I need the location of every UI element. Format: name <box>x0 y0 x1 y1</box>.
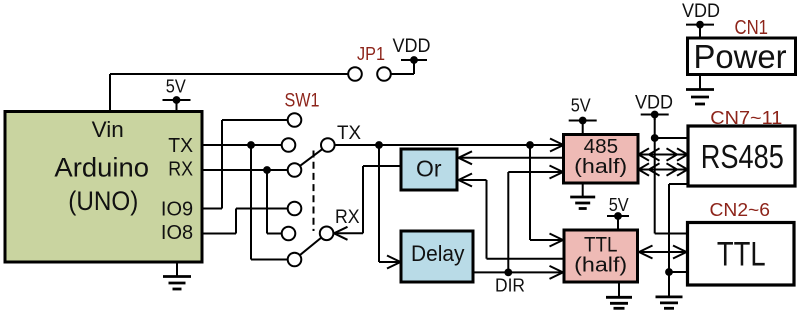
svg-text:Delay: Delay <box>411 241 464 266</box>
svg-text:Vin: Vin <box>92 117 124 142</box>
svg-text:5V: 5V <box>609 195 629 215</box>
svg-text:CN1: CN1 <box>735 17 769 39</box>
svg-text:DIR: DIR <box>495 276 525 296</box>
svg-text:5V: 5V <box>571 96 591 116</box>
svg-text:Or: Or <box>416 156 442 182</box>
svg-text:RX: RX <box>335 207 360 228</box>
svg-text:Power: Power <box>694 38 787 75</box>
svg-text:VDD: VDD <box>635 93 673 114</box>
svg-text:SW1: SW1 <box>285 91 320 112</box>
svg-text:CN7~11: CN7~11 <box>710 108 782 128</box>
svg-text:IO9: IO9 <box>161 199 193 221</box>
svg-text:IO8: IO8 <box>161 222 193 244</box>
svg-text:TTL: TTL <box>717 236 766 274</box>
svg-text:JP1: JP1 <box>357 44 385 64</box>
svg-text:VDD: VDD <box>393 36 431 57</box>
svg-text:VDD: VDD <box>682 1 720 22</box>
svg-text:(half): (half) <box>574 156 627 178</box>
svg-text:5V: 5V <box>166 76 186 96</box>
svg-text:Arduino: Arduino <box>54 153 149 183</box>
svg-text:CN2~6: CN2~6 <box>710 200 771 220</box>
svg-text:(half): (half) <box>574 255 627 277</box>
svg-text:RX: RX <box>168 159 193 181</box>
svg-text:RS485: RS485 <box>701 138 784 175</box>
svg-text:TTL: TTL <box>584 233 618 257</box>
svg-text:485: 485 <box>584 136 619 158</box>
svg-text:TX: TX <box>337 123 361 144</box>
svg-text:(UNO): (UNO) <box>68 186 138 216</box>
svg-text:TX: TX <box>168 135 193 157</box>
